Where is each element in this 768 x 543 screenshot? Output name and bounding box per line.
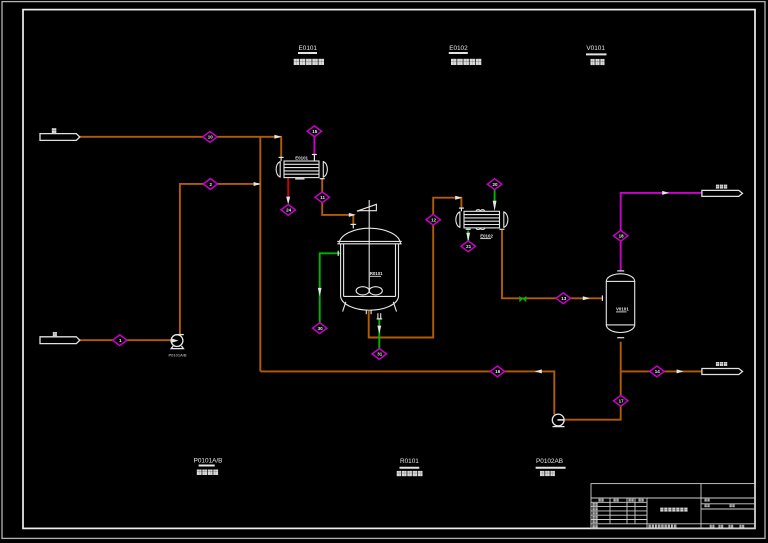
svg-text:P0102AB: P0102AB: [536, 458, 563, 465]
svg-text:14: 14: [655, 369, 661, 374]
svg-text:E0101: E0101: [299, 45, 318, 52]
svg-text:R0101: R0101: [370, 271, 383, 276]
svg-text:V0101: V0101: [586, 45, 605, 52]
svg-text:17: 17: [619, 399, 625, 404]
svg-text:10: 10: [208, 135, 214, 140]
svg-text:E0102: E0102: [480, 233, 493, 238]
svg-text:12: 12: [431, 218, 437, 223]
svg-text:E0101: E0101: [295, 155, 308, 160]
svg-text:31: 31: [377, 352, 383, 357]
svg-text:P0101A/B: P0101A/B: [169, 353, 187, 358]
svg-text:E0102: E0102: [449, 45, 468, 52]
svg-text:16: 16: [495, 369, 501, 374]
svg-text:13: 13: [561, 296, 567, 301]
svg-text:24: 24: [286, 208, 292, 213]
svg-text:21: 21: [466, 244, 472, 249]
svg-text:18: 18: [619, 234, 625, 239]
svg-text:V0101: V0101: [616, 306, 629, 311]
svg-text:20: 20: [492, 182, 498, 187]
svg-text:P0101A/B: P0101A/B: [194, 457, 223, 464]
svg-text:R0101: R0101: [400, 458, 419, 465]
svg-text:15: 15: [312, 129, 318, 134]
svg-text:11: 11: [320, 195, 325, 200]
svg-text:30: 30: [318, 326, 324, 331]
